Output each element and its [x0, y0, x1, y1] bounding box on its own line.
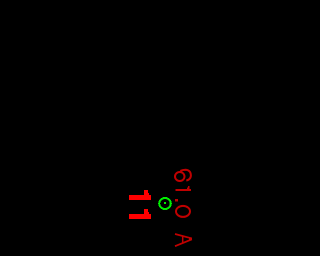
closed breaker / status indicator: green circle — [159, 198, 171, 209]
breaker center dot — [164, 202, 166, 204]
flow value decimal point (rotated, dark red) — [175, 199, 178, 202]
flow value digit "6" (rotated 90deg CW, dark red) — [175, 170, 191, 181]
bus number label "1" (upper digit, rotated 90deg CW, bold red) — [129, 190, 151, 200]
flow value digit "1" (rotated 90deg CW, dark red) — [176, 186, 191, 191]
unit label "A" (rotated 90deg CW, dark red) — [175, 234, 192, 246]
unit label "A" apex and foot serif details — [175, 233, 192, 246]
flow value digit "0" (rotated 90deg CW, dark red) — [176, 206, 190, 217]
bus number label "1" (lower digit, rotated 90deg CW, bold red) — [129, 209, 151, 219]
